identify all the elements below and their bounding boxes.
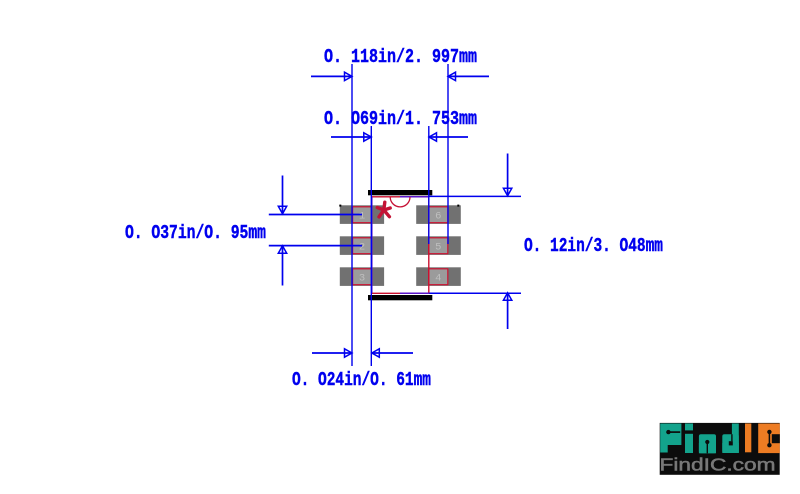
svg-text:5: 5 — [435, 242, 441, 254]
svg-text:O. O24in/O. 61mm: O. O24in/O. 61mm — [292, 370, 431, 391]
svg-text:O. O69in/1. 753mm: O. O69in/1. 753mm — [324, 109, 477, 130]
svg-text:O. 118in/2. 997mm: O. 118in/2. 997mm — [324, 47, 477, 68]
svg-text:4: 4 — [435, 273, 441, 285]
svg-text:FindIC.com: FindIC.com — [660, 455, 776, 475]
svg-text:O. O37in/O. 95mm: O. O37in/O. 95mm — [125, 223, 266, 244]
svg-text:6: 6 — [435, 211, 441, 223]
svg-text:1: 1 — [359, 211, 365, 223]
svg-text:O. 12in/3. O48mm: O. 12in/3. O48mm — [524, 236, 663, 257]
svg-text:3: 3 — [359, 273, 365, 285]
svg-text:2: 2 — [359, 242, 365, 254]
